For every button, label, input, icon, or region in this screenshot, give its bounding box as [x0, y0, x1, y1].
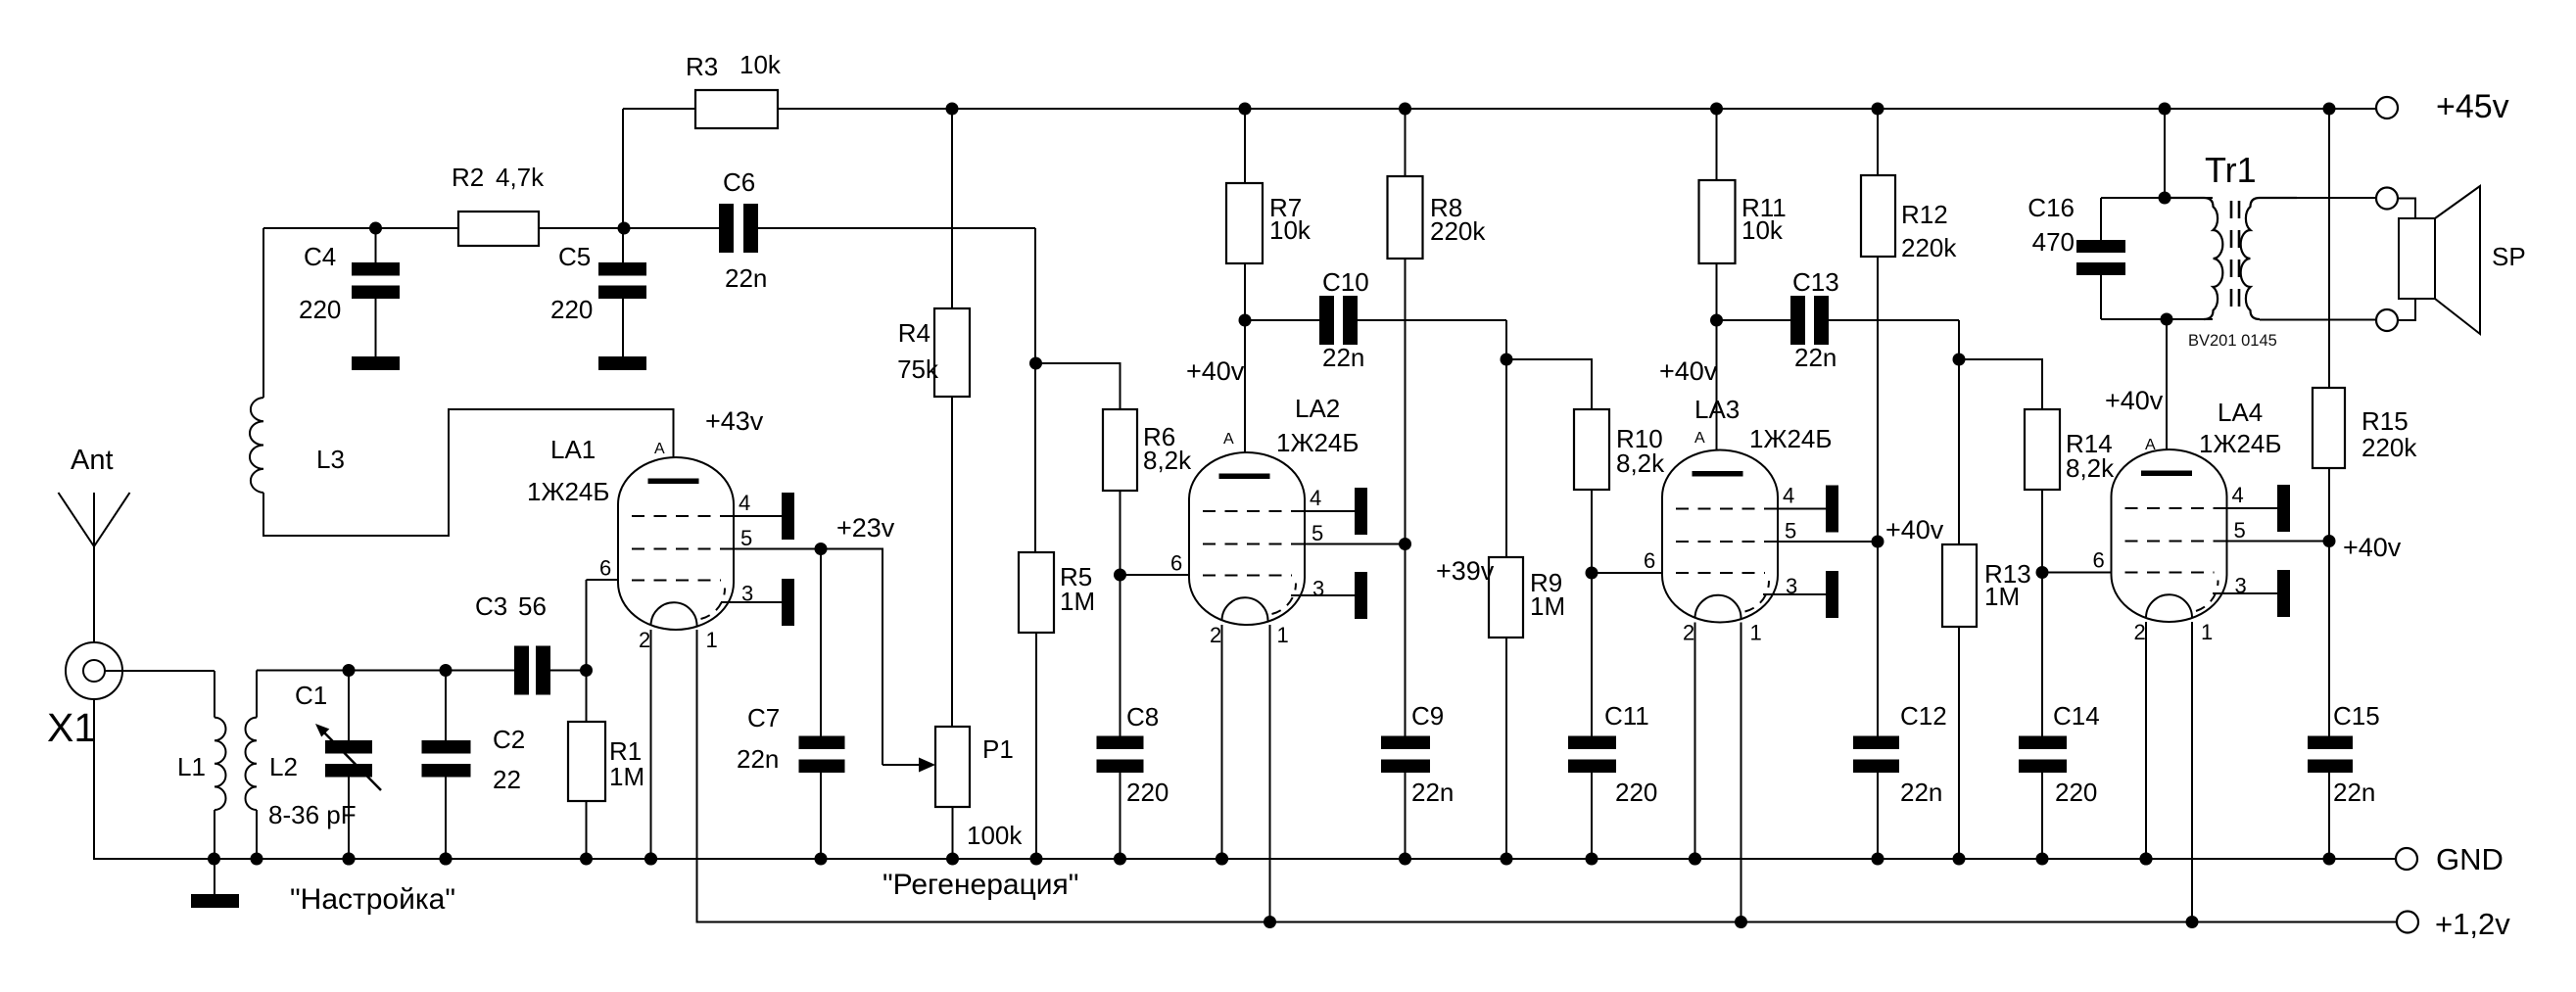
wire LA4 pin4	[2227, 507, 2278, 509]
svg-text:1Ж24Б: 1Ж24Б	[527, 477, 609, 506]
svg-text:6: 6	[1170, 551, 1182, 576]
junction Tr1 primary top	[2159, 192, 2171, 205]
wire LA3 pin6 lead	[1592, 572, 1662, 574]
svg-text:R12: R12	[1901, 200, 1948, 229]
svg-text:1Ж24Б: 1Ж24Б	[1749, 424, 1832, 453]
wire L3 top lead	[262, 228, 264, 398]
wire C4 node left	[263, 227, 458, 229]
wire LA3 pin2 to GND	[1694, 623, 1696, 860]
svg-text:22n: 22n	[1322, 343, 1364, 372]
junction node R12 feed	[1872, 103, 1884, 116]
svg-text:1M: 1M	[1984, 582, 2020, 611]
junction LA4 pin2 GND	[2140, 853, 2153, 866]
wire C15 to GND	[2328, 773, 2330, 859]
junction grid node 2	[1501, 354, 1513, 366]
junction LA3 pin1	[1735, 916, 1747, 928]
capacitor C8	[1097, 736, 1144, 774]
wire P1 to GND	[952, 807, 954, 859]
tube LA2 pin4 grid cap bar	[1355, 488, 1367, 535]
svg-text:220: 220	[299, 295, 341, 324]
wire C16 bottom lead	[2100, 275, 2102, 319]
capacitor C10	[1319, 296, 1358, 345]
svg-text:X1: X1	[47, 705, 96, 750]
wire R15 to C15	[2328, 468, 2330, 736]
wire anode node to C13	[1717, 319, 1791, 321]
tube LA1 bottom notch	[651, 602, 697, 626]
svg-text:2: 2	[639, 628, 650, 652]
svg-text:220k: 220k	[1901, 233, 1957, 262]
junction LA3 pin5 +40v	[1872, 536, 1884, 548]
resistor R5	[1019, 552, 1054, 633]
svg-text:4: 4	[1783, 484, 1794, 508]
svg-text:1Ж24Б: 1Ж24Б	[1276, 428, 1359, 457]
wire LA3 pin3	[1763, 593, 1826, 595]
wire LA2 pin5	[1305, 543, 1406, 545]
svg-text:4: 4	[2232, 483, 2244, 507]
wire Tr1 to LA4 anode	[2166, 319, 2168, 471]
svg-text:22: 22	[493, 765, 521, 794]
svg-text:5: 5	[2234, 518, 2246, 543]
wire X1 to GND	[93, 699, 95, 859]
junction C5 node	[618, 222, 631, 235]
svg-text:1: 1	[1750, 621, 1762, 645]
svg-text:R3: R3	[686, 52, 718, 81]
wire R6 to C8	[1120, 491, 1121, 736]
svg-text:56: 56	[518, 591, 547, 621]
svg-text:+40v: +40v	[1659, 356, 1718, 386]
terminal GND	[2396, 848, 2417, 870]
junction LA2 pin5 +39v	[1399, 538, 1411, 550]
svg-text:220k: 220k	[2361, 433, 2417, 462]
tube LA3 filament dashed arc	[1745, 581, 1770, 612]
junction grid node 3	[1953, 354, 1966, 366]
svg-text:A: A	[654, 441, 665, 457]
junction LA3 pin2 GND	[1689, 853, 1701, 866]
wire pin5 node to C7	[820, 549, 822, 736]
capacitor C16	[2076, 240, 2125, 275]
vacuum tube LA2	[1170, 431, 1324, 647]
svg-text:Ant: Ant	[71, 445, 114, 476]
wire R1 top lead	[586, 671, 588, 723]
junction GND C2	[440, 853, 453, 866]
wire C9 to GND	[1405, 773, 1407, 859]
wire R10 to C11	[1591, 490, 1593, 736]
tube LA3 bottom notch	[1695, 595, 1741, 619]
svg-text:LA2: LA2	[1295, 394, 1340, 423]
svg-text:10k: 10k	[1269, 215, 1312, 245]
junction C2 GND	[440, 853, 453, 866]
wire rail to R4	[951, 109, 953, 308]
junction node R7 feed	[1239, 103, 1252, 116]
junction GND C15	[2323, 853, 2336, 866]
svg-text:8,2k: 8,2k	[2066, 453, 2115, 483]
wire L3 to LA1 anode	[263, 409, 674, 536]
junction LA1 pin2 GND	[644, 853, 657, 866]
tube LA2 grid dashes	[1203, 510, 1305, 512]
svg-text:220: 220	[1126, 778, 1169, 807]
junction GND R5	[1030, 853, 1043, 866]
svg-text:220: 220	[2055, 778, 2097, 807]
wire Tr1 secondary top to SP	[2260, 197, 2376, 199]
wire grid node 1 to R6	[1036, 363, 1121, 409]
svg-text:22n: 22n	[737, 744, 779, 774]
svg-text:C1: C1	[295, 681, 327, 710]
junction LA4 pin5 +40v	[2323, 535, 2336, 547]
resistor R13	[1942, 544, 1977, 627]
svg-text:+43v: +43v	[705, 406, 764, 436]
svg-text:220: 220	[1615, 778, 1657, 807]
inductor L2	[245, 718, 257, 810]
wire R3 to C5 node	[622, 109, 624, 228]
junction GND C1	[343, 853, 356, 866]
capacitor C1	[325, 740, 372, 778]
wire C1 bottom lead	[348, 778, 350, 860]
wire GND rail	[94, 699, 2396, 859]
wire LA4 pin1 to +1,2v	[2191, 622, 2193, 922]
svg-text:GND: GND	[2436, 842, 2504, 876]
svg-text:8,2k: 8,2k	[1616, 449, 1665, 478]
wire to ground bar	[214, 859, 215, 894]
tube LA2 pin3 grid cap bar	[1355, 572, 1367, 619]
svg-text:"Настройка": "Настройка"	[290, 883, 455, 916]
wire grid node 2 to R10	[1506, 359, 1592, 409]
svg-text:C16: C16	[2027, 193, 2075, 222]
svg-text:C9: C9	[1411, 701, 1444, 731]
wire R13 to GND	[1958, 627, 1960, 859]
resistor R14	[2025, 409, 2060, 490]
svg-text:+45v: +45v	[2436, 88, 2509, 125]
svg-text:1: 1	[2201, 620, 2213, 644]
svg-text:4: 4	[739, 491, 750, 515]
junction GND C11	[1586, 853, 1598, 866]
junction grid node 1	[1029, 357, 1042, 370]
svg-text:5: 5	[1312, 521, 1323, 545]
wire +45v rail	[778, 108, 2376, 110]
wire R3 left lead	[623, 108, 695, 110]
svg-text:P1: P1	[982, 734, 1014, 764]
svg-text:R4: R4	[898, 318, 930, 348]
inductor L1	[215, 718, 226, 810]
capacitor C5	[598, 262, 646, 299]
junction GND C12	[1872, 853, 1884, 866]
svg-text:2: 2	[1210, 623, 1221, 647]
capacitor C6	[719, 204, 758, 253]
ground under L1	[191, 894, 239, 908]
svg-text:SP: SP	[2492, 242, 2526, 271]
junction LA2 pin2 GND	[1216, 853, 1228, 866]
wire L2 top lead	[256, 671, 258, 718]
wire R1 to GND	[586, 801, 588, 859]
svg-text:+40v: +40v	[1885, 515, 1944, 544]
junction GND C9	[1399, 853, 1411, 866]
svg-text:L1: L1	[177, 752, 206, 781]
svg-text:6: 6	[2093, 548, 2105, 573]
junction Tr1 primary bottom	[2161, 313, 2173, 326]
svg-text:R2: R2	[452, 163, 484, 192]
svg-text:L3: L3	[316, 445, 345, 474]
svg-text:L2: L2	[269, 752, 298, 781]
wire grid node 2 riser	[1505, 320, 1507, 557]
wire LA2 pin2 to GND	[1221, 625, 1223, 859]
junction GND LA4 pin2	[2140, 853, 2153, 866]
wire LA3 pin5	[1778, 541, 1878, 543]
svg-text:22n: 22n	[1411, 778, 1454, 807]
wire R4 to P1	[951, 397, 953, 727]
tube LA3 envelope	[1662, 450, 1778, 623]
junction C1 GND	[343, 853, 356, 866]
svg-text:+1,2v: +1,2v	[2435, 907, 2510, 941]
svg-text:C11: C11	[1604, 701, 1649, 731]
connector X1	[66, 642, 122, 699]
vacuum tube LA3	[1644, 430, 1797, 645]
capacitor C4	[352, 262, 400, 299]
wire LA1 pin5	[735, 548, 821, 550]
svg-text:+40v: +40v	[2343, 533, 2402, 562]
wire tuning bus	[257, 670, 514, 672]
vacuum tube LA4	[2093, 437, 2247, 644]
junction LA4 pin1	[2186, 916, 2199, 928]
resistor R15	[2313, 388, 2345, 468]
terminal SP bottom	[2376, 309, 2398, 331]
wire LA2 pin6 lead	[1121, 574, 1190, 576]
wire L1 top lead	[214, 671, 215, 718]
wire LA3 pin4	[1778, 508, 1826, 510]
speaker SP	[2399, 186, 2480, 334]
svg-text:4: 4	[1310, 486, 1321, 510]
svg-text:6: 6	[1644, 548, 1655, 573]
tube LA1 filament dashed arc	[701, 589, 726, 620]
wire LA4 pin2 to GND	[2145, 622, 2147, 859]
tube LA4 filament dashed arc	[2196, 581, 2218, 612]
transformer Tr1 primary winding	[2165, 198, 2222, 319]
svg-text:A: A	[1694, 430, 1705, 447]
svg-text:220k: 220k	[1430, 216, 1486, 246]
wire LA4 pin3	[2213, 592, 2277, 594]
junction C2 top	[440, 664, 453, 677]
wire R14 to C14	[2041, 490, 2043, 736]
wire C11 to GND	[1591, 773, 1593, 859]
tube LA3 pin4 grid cap bar	[1826, 486, 1838, 533]
svg-text:470: 470	[2032, 227, 2075, 257]
svg-text:100k: 100k	[967, 821, 1023, 850]
wire C7 to GND	[820, 773, 822, 859]
wire C14 to GND	[2041, 773, 2043, 859]
wire LA2 pin1 to +1,2v	[1269, 625, 1271, 922]
tube LA1 pin4 grid cap bar	[782, 493, 794, 540]
wire R7 to anode node	[1244, 263, 1246, 320]
svg-text:LA3: LA3	[1694, 395, 1740, 424]
junction LA2 pin1	[1264, 916, 1276, 928]
svg-text:2: 2	[2134, 620, 2146, 644]
wire L1 to GND	[214, 810, 215, 859]
junction node R8 feed	[1399, 103, 1411, 116]
ground C4	[352, 356, 400, 370]
junction L2 GND	[251, 853, 263, 866]
wire C10 to grid node 2	[1358, 319, 1506, 321]
resistor R3	[695, 90, 778, 128]
svg-text:1: 1	[1277, 623, 1289, 647]
svg-text:C4: C4	[304, 242, 336, 271]
tube LA4 grid dashes	[2125, 507, 2227, 509]
junction LA3 anode +40v	[1710, 314, 1723, 327]
tube LA1 pin3 grid cap bar	[782, 579, 794, 626]
junction LA1 pin5 +23v	[815, 543, 828, 555]
potentiometer P1 wiper arrow	[883, 758, 935, 773]
capacitor C12	[1853, 736, 1899, 774]
tube LA1 grid dashes	[632, 515, 734, 517]
svg-text:C5: C5	[558, 242, 591, 271]
svg-text:1Ж24Б: 1Ж24Б	[2199, 429, 2281, 458]
junction LA3 grid	[1586, 567, 1598, 580]
wire C16 top lead	[2100, 198, 2102, 240]
wire R2 to C6	[539, 227, 719, 229]
wire C8 to GND	[1120, 773, 1121, 859]
svg-text:C10: C10	[1322, 267, 1369, 297]
junction node Tr1 feed	[2159, 103, 2171, 116]
tube LA2 filament dashed arc	[1272, 584, 1297, 615]
junction LA4 grid	[2036, 566, 2049, 579]
junction GND LA3 pin2	[1689, 853, 1701, 866]
svg-text:75k: 75k	[897, 354, 939, 384]
tube LA4 pin3 grid cap bar	[2277, 570, 2290, 617]
capacitor C9	[1381, 736, 1430, 774]
wire C1 top lead	[348, 671, 350, 741]
wire C4 bottom lead	[375, 299, 377, 356]
tube LA1 envelope	[618, 457, 734, 630]
resistor R7	[1226, 183, 1263, 263]
terminal +1,2v	[2397, 912, 2418, 933]
junction GND LA2 pin2	[1216, 853, 1228, 866]
svg-text:22n: 22n	[2333, 778, 2375, 807]
capacitor C7	[799, 736, 845, 774]
wire C5 bottom lead	[622, 299, 624, 356]
wire rail to R15	[2328, 109, 2330, 388]
wire R11 to anode node	[1716, 263, 1718, 320]
wire LA2 pin4	[1305, 510, 1355, 512]
junction GND P1	[946, 853, 959, 866]
wire rail to R11	[1716, 109, 1718, 180]
junction LA2 anode +40v	[1239, 314, 1252, 327]
svg-text:+40v: +40v	[1186, 356, 1245, 386]
tube LA3 pin3 grid cap bar	[1826, 571, 1838, 618]
inductor L3	[250, 398, 263, 493]
wire rail to R8	[1405, 109, 1407, 176]
svg-text:C3: C3	[475, 591, 507, 621]
svg-text:1: 1	[706, 628, 718, 652]
junction C4 node	[369, 222, 382, 235]
wire LA4 pin6 lead	[2042, 572, 2112, 574]
svg-text:A: A	[2145, 437, 2156, 453]
wire R12 to C12	[1877, 257, 1879, 736]
junction GND R1	[580, 853, 593, 866]
svg-text:1M: 1M	[1530, 591, 1565, 621]
svg-text:22n: 22n	[725, 263, 767, 293]
wire grid riser LA1	[586, 580, 588, 671]
junction GND LA1 pin2	[644, 853, 657, 866]
wire pin5 node to P1 wiper	[821, 549, 883, 766]
resistor R6	[1103, 409, 1137, 491]
svg-text:C6: C6	[723, 167, 755, 197]
capacitor C14	[2019, 736, 2067, 774]
wire anode node to C10	[1245, 319, 1319, 321]
junction R1 node	[580, 664, 593, 677]
wire Tr1 secondary bottom to SP	[2260, 319, 2376, 321]
svg-text:1M: 1M	[1060, 587, 1095, 616]
svg-text:C12: C12	[1900, 701, 1947, 731]
svg-text:"Регенерация": "Регенерация"	[883, 869, 1078, 901]
svg-text:A: A	[1223, 431, 1234, 448]
wire +1,2v rail	[697, 630, 2398, 922]
terminal +45v	[2376, 97, 2398, 118]
wire C4 top lead	[375, 228, 377, 262]
transformer Tr1 core	[2231, 201, 2239, 316]
wire LA1 pin4	[735, 515, 782, 517]
wire SP bottom terminal to speaker	[2398, 299, 2415, 320]
ground C5	[598, 356, 646, 370]
tube LA4 anode bar	[2141, 471, 2192, 477]
resistor R10	[1574, 409, 1609, 490]
tube LA4 envelope	[2112, 449, 2227, 622]
antenna Ant	[59, 493, 130, 642]
capacitor C11	[1568, 736, 1616, 774]
tube LA2 bottom notch	[1222, 597, 1268, 621]
svg-text:5: 5	[1785, 519, 1796, 543]
wire SP top terminal to speaker	[2398, 199, 2415, 219]
junction GND R9	[1501, 853, 1513, 866]
junction LA2 grid	[1114, 569, 1126, 582]
wire grid node 1 riser	[1034, 228, 1036, 552]
tube LA2 anode bar	[1219, 474, 1270, 480]
junction node R11 feed	[1710, 103, 1723, 116]
resistor R12	[1861, 175, 1895, 257]
wire C2 bottom lead	[445, 778, 447, 860]
wire LA3 anode lead	[1716, 320, 1718, 475]
wire C2 top lead	[445, 671, 447, 741]
junction node R4 feed	[946, 103, 959, 116]
svg-text:5: 5	[740, 526, 752, 550]
capacitor C13	[1790, 296, 1829, 345]
svg-text:BV201 0145: BV201 0145	[2188, 332, 2277, 350]
wire Tr1 primary bottom lead	[2101, 318, 2213, 320]
wire rail to Tr1 primary	[2164, 109, 2166, 198]
wire Tr1 primary top lead	[2101, 197, 2213, 199]
wire L2 to GND	[256, 810, 258, 859]
svg-text:22n: 22n	[1900, 778, 1942, 807]
capacitor C15	[2308, 736, 2353, 774]
wire R5 to GND	[1035, 633, 1037, 859]
wire LA2 anode lead	[1244, 320, 1246, 478]
resistor R2	[458, 212, 539, 246]
junction L1 GND	[208, 853, 220, 866]
wire C6 to grid node 1	[758, 227, 1035, 229]
wire C13 to grid node 3	[1828, 319, 1959, 321]
tube LA3 grid dashes	[1676, 508, 1778, 510]
potentiometer P1	[935, 727, 970, 807]
wire LA1 pin3	[721, 601, 782, 603]
svg-text:10k: 10k	[739, 50, 782, 79]
svg-text:6: 6	[599, 556, 611, 581]
capacitor C1 arrow	[315, 724, 381, 790]
wire X1 to L1	[105, 670, 215, 672]
resistor R8	[1388, 176, 1423, 259]
resistor R11	[1699, 180, 1736, 263]
wire grid node 3 to R14	[1959, 359, 2042, 409]
wire C12 to GND	[1877, 773, 1879, 859]
wire C5 top lead	[622, 228, 624, 262]
tube LA3 anode bar	[1693, 471, 1743, 477]
svg-text:LA1: LA1	[550, 435, 596, 464]
junction C1 top	[343, 664, 356, 677]
